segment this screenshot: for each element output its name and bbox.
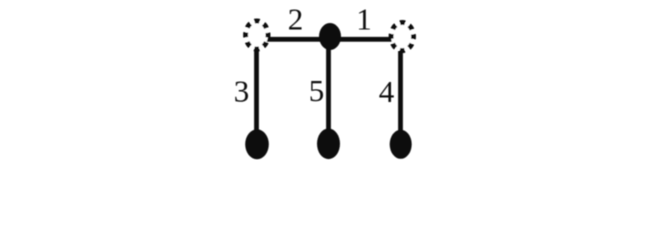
- svg-text:5: 5: [309, 73, 325, 108]
- svg-text:1: 1: [356, 2, 372, 37]
- svg-text:2: 2: [288, 2, 304, 37]
- svg-text:4: 4: [379, 74, 395, 109]
- svg-text:3: 3: [234, 73, 250, 108]
